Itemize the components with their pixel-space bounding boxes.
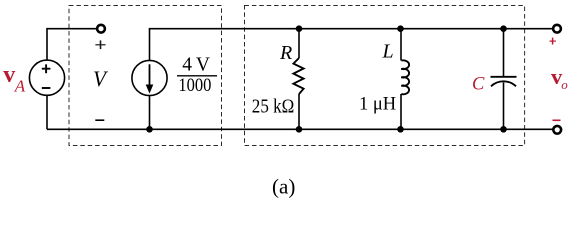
resistor R zigzag	[293, 58, 303, 94]
output terminal bottom (open circle)	[553, 126, 561, 134]
svg-text:(a): (a)	[272, 174, 295, 198]
label + (output, red)	[550, 40, 556, 42]
svg-text:C: C	[472, 74, 485, 94]
wire: current source top lead and top rail	[150, 29, 553, 61]
svg-text:A: A	[14, 76, 26, 95]
svg-text:L: L	[382, 41, 394, 63]
label - (input port)	[95, 119, 104, 121]
node: top of L (junction dot)	[397, 25, 404, 32]
node: top of R (junction dot)	[296, 25, 303, 32]
node: bottom of R (junction dot)	[296, 126, 303, 133]
inductor L coil	[401, 60, 409, 94]
svg-text:4 V: 4 V	[182, 54, 210, 75]
wire: inductor top lead	[400, 29, 402, 61]
node: current source bottom junction dot	[146, 126, 153, 133]
label + (input port)	[95, 44, 105, 46]
capacitor C plates	[491, 76, 517, 78]
svg-text:v: v	[3, 62, 15, 88]
input terminal (open circle)	[97, 25, 105, 33]
svg-text:o: o	[561, 77, 568, 92]
label - (output, red)	[553, 119, 561, 121]
svg-text:25 kΩ: 25 kΩ	[252, 97, 294, 118]
dependent current source	[132, 60, 167, 95]
svg-text:R: R	[279, 42, 292, 64]
node: bottom of C (junction dot)	[500, 126, 507, 133]
output terminal top (open circle)	[553, 25, 561, 33]
dashed box 2 (RLC block)	[245, 6, 525, 146]
wire: resistor bottom lead	[298, 94, 300, 129]
voltage source vA	[29, 60, 64, 95]
wire: capacitor bottom lead	[503, 83, 505, 130]
wire: resistor top lead	[298, 29, 300, 58]
svg-text:1000: 1000	[178, 75, 211, 96]
node: bottom of L (junction dot)	[397, 126, 404, 133]
wire: capacitor top lead	[503, 29, 505, 76]
wire: vA top lead up and right to input terminal	[47, 29, 97, 61]
node: top of C (junction dot)	[500, 25, 507, 32]
dashed box 1 (dependent source block)	[69, 6, 222, 146]
wire: bottom rail	[47, 128, 553, 130]
wire: vA bottom lead	[46, 95, 48, 129]
wire: current source bottom lead	[149, 96, 151, 130]
svg-text:1 μH: 1 μH	[359, 95, 396, 115]
wire: inductor bottom lead	[400, 94, 402, 129]
